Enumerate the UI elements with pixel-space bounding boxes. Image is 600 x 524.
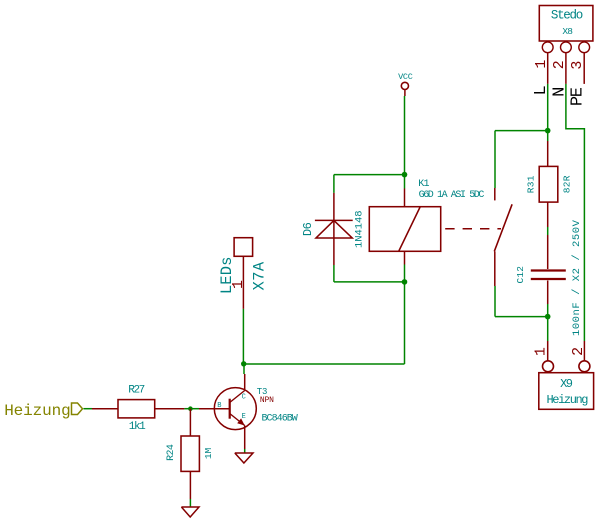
svg-text:1: 1	[533, 60, 550, 69]
wire coil bottom down	[404, 265, 406, 365]
dashed mechanical link from coil to contact	[445, 228, 501, 230]
connector X9 pin 2	[570, 347, 590, 372]
wire diode top rail	[334, 174, 405, 176]
svg-text:K1: K1	[418, 179, 429, 190]
node junction base/R24	[188, 406, 193, 411]
svg-text:1k1: 1k1	[129, 421, 146, 433]
svg-text:82R: 82R	[562, 175, 573, 193]
net label PE	[568, 87, 587, 106]
ground under R24	[181, 507, 199, 517]
connector X8 body	[539, 6, 593, 42]
svg-text:100nF / X2 / 250V: 100nF / X2 / 250V	[571, 219, 583, 336]
svg-text:E: E	[242, 413, 246, 421]
svg-text:3: 3	[569, 61, 586, 70]
net label L	[532, 85, 551, 95]
wire R31 to C12	[547, 227, 549, 235]
resistor R31	[526, 141, 573, 227]
wire VCC down to relay coil	[404, 96, 406, 175]
wire horizontal to transistor collector	[244, 363, 405, 365]
ground under emitter	[235, 453, 253, 463]
svg-text:G6D 1A ASI 5DC: G6D 1A ASI 5DC	[419, 190, 485, 201]
wire diode left bottom	[333, 265, 335, 282]
wire R27 to base junction	[184, 408, 199, 410]
svg-text:2: 2	[570, 347, 587, 356]
svg-text:1N4148: 1N4148	[353, 211, 365, 249]
svg-text:LEDs: LEDs	[218, 256, 236, 294]
svg-text:Heizung: Heizung	[546, 393, 588, 407]
resistor R24	[166, 409, 214, 499]
svg-text:X8: X8	[562, 26, 573, 37]
wire C12 to bottom junction	[547, 304, 549, 317]
relay contact switch branch wire bottom	[494, 286, 496, 317]
wire coil top pin green part	[404, 175, 406, 189]
svg-text:C: C	[242, 394, 246, 402]
wire X7A pin down to junction	[242, 309, 244, 364]
svg-text:Stedo: Stedo	[551, 8, 583, 22]
global label Heizung	[4, 402, 82, 420]
svg-text:B: B	[217, 402, 221, 410]
connector X9 body	[539, 373, 594, 410]
svg-text:1: 1	[533, 347, 550, 356]
node junction collector/X7A	[241, 361, 246, 366]
wire N from X8 pin2 down with jog	[566, 84, 585, 341]
svg-text:X9: X9	[560, 377, 573, 391]
wire top rail of snubber	[495, 130, 548, 132]
wire emitter to ground	[244, 449, 246, 453]
wire diode left top	[333, 175, 335, 193]
wire L from X8 pin1 down	[547, 84, 549, 131]
svg-text:Heizung: Heizung	[4, 402, 70, 420]
connector X8 pin 3	[569, 42, 590, 84]
svg-text:R31: R31	[526, 175, 537, 193]
svg-text:PE: PE	[568, 87, 587, 106]
connector X9 pin stubs	[548, 341, 585, 361]
svg-text:R24: R24	[166, 444, 177, 461]
connector X8 pin 2	[551, 42, 571, 84]
node junction at C12/X9	[545, 314, 551, 320]
svg-text:1M: 1M	[203, 448, 214, 460]
svg-text:X7A: X7A	[250, 261, 268, 290]
node junction at L/R31	[545, 128, 551, 134]
relay K1 contact	[494, 188, 512, 286]
svg-text:2: 2	[551, 60, 568, 69]
net label N	[550, 87, 569, 97]
transistor T3	[199, 364, 298, 449]
svg-text:R27: R27	[128, 384, 144, 396]
connector X7A	[218, 238, 268, 309]
relay K1 coil	[369, 179, 484, 265]
wire diode bottom rail	[334, 281, 405, 283]
svg-text:BC846BW: BC846BW	[262, 414, 298, 425]
svg-text:C12: C12	[515, 266, 526, 284]
wire bottom rail of snubber	[495, 316, 548, 318]
wire junction down to X9 pin1	[547, 317, 549, 341]
wire L junction to R31	[547, 131, 549, 141]
svg-text:D6: D6	[301, 222, 315, 236]
power symbol VCC	[398, 72, 413, 96]
connector X8 pin 1	[533, 42, 553, 84]
connector X9 pin 1	[533, 347, 554, 372]
diode D6	[301, 193, 365, 265]
capacitor C12	[515, 219, 583, 336]
node junction VCC/diode top	[402, 172, 408, 178]
wire label to R27	[84, 408, 93, 410]
node junction coil bottom / diode	[402, 279, 408, 285]
wire R24 to ground	[189, 499, 191, 507]
svg-text:NPN: NPN	[260, 396, 274, 405]
svg-text:VCC: VCC	[398, 72, 413, 82]
relay contact switch branch wire top	[494, 131, 496, 188]
resistor R27	[92, 384, 184, 433]
